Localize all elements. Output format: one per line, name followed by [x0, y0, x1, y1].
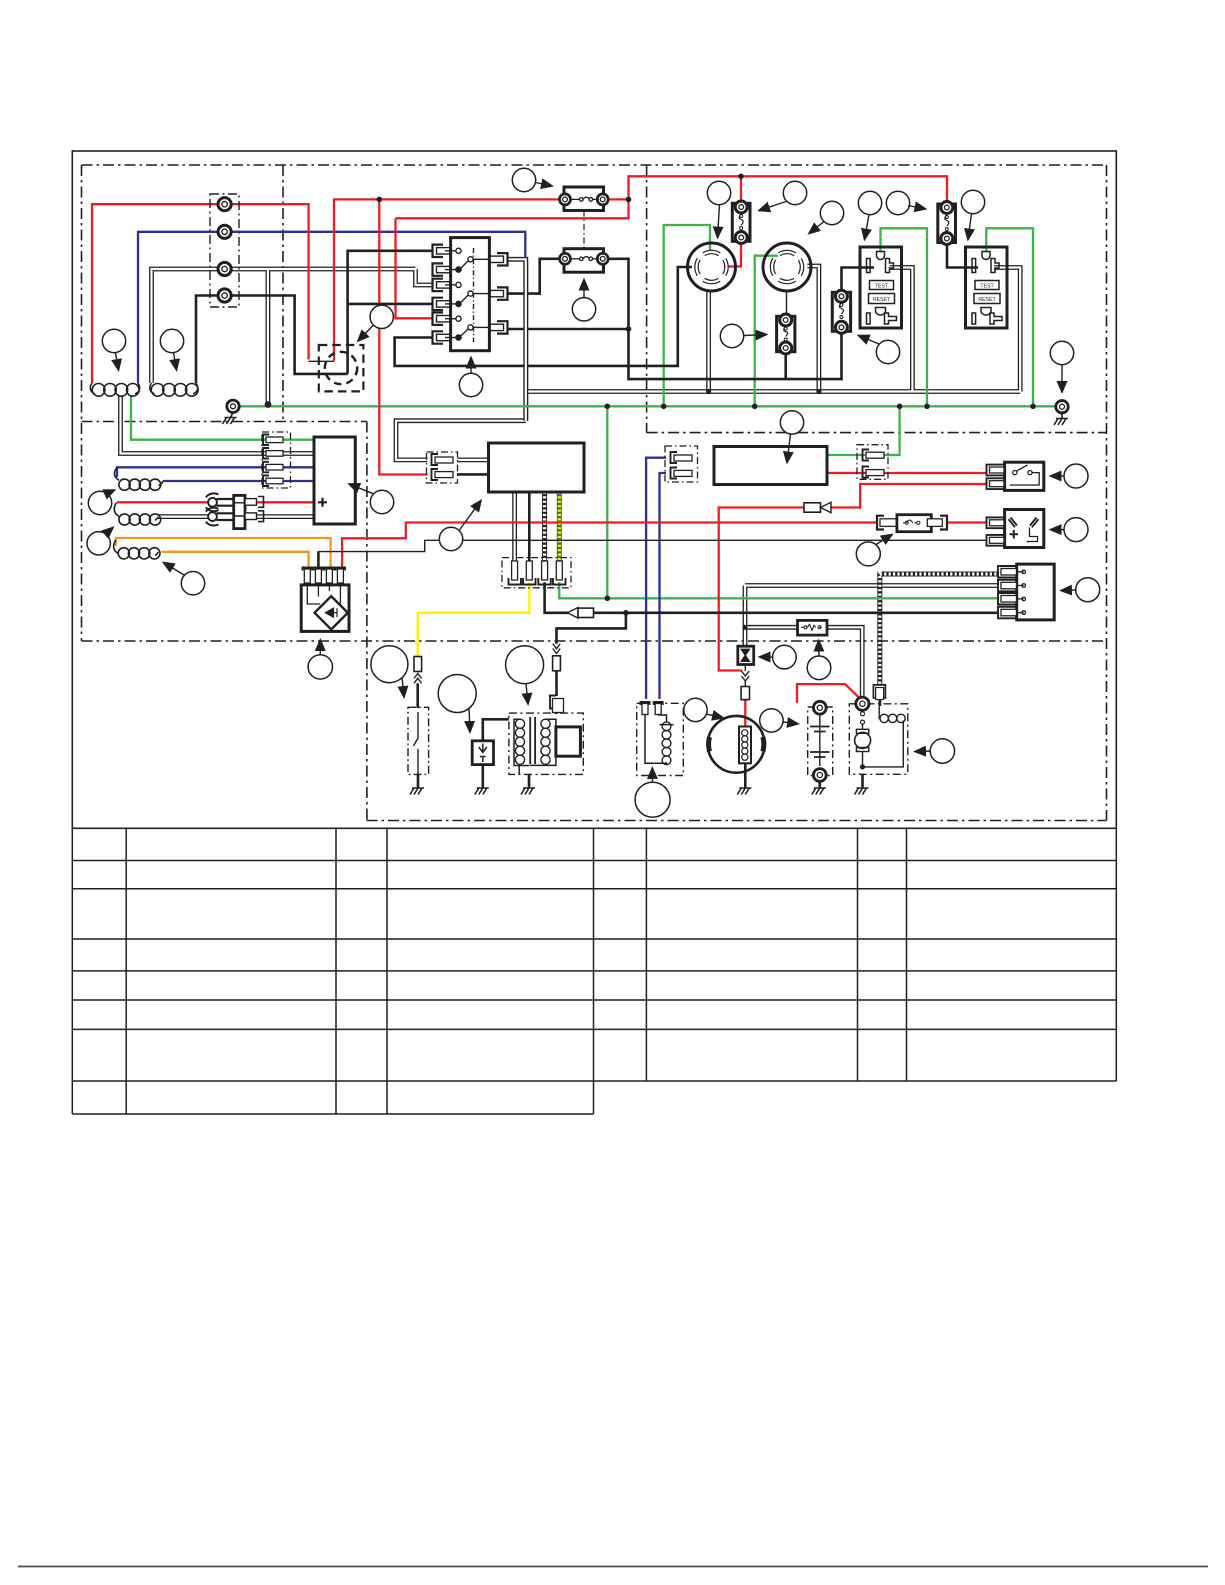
- svg-text:TEST: TEST: [875, 283, 889, 289]
- svg-text:RESET: RESET: [978, 297, 996, 303]
- svg-text:TEST: TEST: [980, 283, 994, 289]
- svg-text:RESET: RESET: [873, 297, 891, 303]
